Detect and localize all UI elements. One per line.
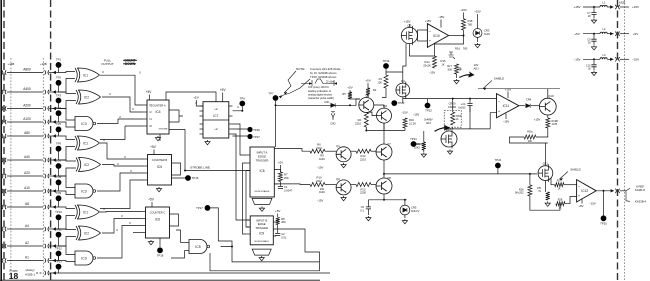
svg-text:IC1: IC1 [83,141,88,145]
svg-text:Q11: Q11 [543,162,549,166]
wire IC8 out2 to R10 [274,183,310,186]
svg-text:TP25: TP25 [600,222,607,226]
svg-text:L3: L3 [603,53,606,57]
zener CR5 [400,205,410,215]
transistor Q10 [539,94,556,115]
wire base Q6 [366,112,376,116]
pin stub IC9 [246,226,250,228]
svg-text:analog digital section: analog digital section [308,93,333,97]
wire gate input [59,122,76,127]
resistor R22 in box [451,112,455,125]
pin stub IC7 right [229,105,233,107]
svg-text:IC1: IC1 [83,73,88,77]
pin stub [144,165,148,167]
wire gate input [59,72,76,73]
svg-text:TP22: TP22 [425,109,432,113]
diode CR4 [526,104,530,108]
svg-text:TP3: TP3 [56,93,62,97]
wire [351,184,356,186]
strobe line wire [169,130,250,171]
wire [243,163,247,234]
svg-text:TP21: TP21 [410,137,417,141]
wire gate input [59,237,77,247]
x [547,180,549,192]
wire C5 stub [367,200,369,202]
svg-text:+C4: +C4 [461,102,466,106]
svg-text:IC1: IC1 [83,210,88,214]
ground [148,240,153,245]
resistor R19 [546,118,550,128]
pin stub [143,104,147,106]
bus line A4 [7,228,43,230]
svg-text:9x4K: 9x4K [319,157,325,161]
wire [351,150,356,152]
wire IC2 out to IC4 [102,97,143,112]
svg-text:−15V: −15V [632,58,639,62]
wire [100,211,142,214]
wire [603,191,605,216]
pin stub [143,118,147,120]
wire A400 to TP column [49,91,59,93]
wire [210,253,320,271]
pin stub IC8 [246,162,250,164]
resistor R26 [528,185,532,196]
wire CR2 [332,117,334,120]
wire to IC12 minus [564,184,577,186]
svg-text:C9x3R: C9x3R [448,105,456,109]
svg-text:A200: A200 [23,104,31,108]
delay element under IC9 [252,249,271,255]
wire [463,30,465,36]
svg-text:IC2: IC2 [84,231,89,235]
wire [593,15,595,19]
FET Q15 glyph [449,52,456,59]
test point TP11 [56,232,62,238]
svg-text:R28: R28 [558,199,563,202]
pin stub [142,218,146,220]
svg-text:C2: C2 [281,232,285,236]
wire [172,177,189,179]
ground [341,163,346,168]
test point TP27 [247,134,252,139]
bus line A8 [7,206,43,208]
pin stub IC8 [246,170,250,172]
resistor R28 1K [556,202,565,206]
wire [620,58,629,60]
svg-text:A1: A1 [25,256,29,260]
wire IC3 out to IC4 [97,119,143,124]
board edge dotted line left a [10,58,12,278]
svg-text:OUTPUT: OUTPUT [101,62,114,66]
FET Q9 [441,127,457,149]
wire A1 to TP column [49,260,59,262]
svg-text:TP19: TP19 [383,59,390,63]
transistor Q8 [376,178,392,194]
svg-text:TP5: TP5 [56,122,62,126]
svg-text:TP4: TP4 [56,106,62,110]
wire [279,79,310,97]
svg-text:−15V: −15V [503,120,510,124]
svg-text:0.01: 0.01 [281,235,287,239]
pin stub IC7 [200,123,204,125]
wire [159,134,161,141]
svg-text:A80: A80 [24,131,30,135]
wire [452,99,454,108]
wire [384,160,420,174]
wire [620,33,629,35]
wire from IC6 strobe [176,230,181,243]
svg-text:0x022: 0x022 [458,105,466,109]
test point TP9 [56,195,62,201]
svg-text:TP24: TP24 [495,158,502,162]
test point TP17 [205,205,211,211]
svg-text:MONOSTABLE: MONOSTABLE [255,240,270,243]
wire [420,173,537,175]
svg-text:+5V: +5V [347,86,352,90]
FET Q4 [396,79,410,98]
svg-text:COUNTER B: COUNTER B [152,158,168,162]
wire [233,107,243,111]
svg-text:IC10: IC10 [433,34,440,38]
svg-text:TRIGGER: TRIGGER [256,159,269,163]
wire [607,33,613,35]
svg-text:COUNTER A: COUNTER A [150,104,165,108]
pin stub [142,232,146,234]
svg-text:20 uSec: 20 uSec [326,82,335,84]
op-amp IC12 [577,180,597,202]
wire A40 to TP column [49,159,59,161]
pin stub IC7 right [229,133,233,135]
svg-text:TP18: TP18 [157,254,164,258]
svg-text:TP10, 9x9048 shown: TP10, 9x9048 shown [310,75,337,79]
wire [153,150,155,155]
wire TP stub [58,101,60,109]
svg-text:10K: 10K [377,81,382,85]
svg-text:+15V: +15V [460,8,467,12]
wire box bottom [452,127,454,129]
wire TP stub [58,182,60,191]
wire A80 to TP column [49,135,59,137]
test point TP18 [157,247,163,253]
wire TP stub [58,65,60,73]
capacitor C5 [366,207,371,209]
svg-text:−15V: −15V [317,166,324,170]
wire [583,6,600,8]
wire [100,75,143,105]
bus line DAISY from sheet 18 [36,272,43,274]
wire A800 to TP column [49,72,59,74]
counter IC5 [148,155,172,186]
svg-text:R17: R17 [447,64,452,68]
wire carry2 [100,180,144,209]
wire A200 to TP column [49,108,59,110]
capacitor C1 0.0047 [278,187,283,189]
wire [273,229,319,262]
wire [368,199,406,201]
svg-text:+5V: +5V [220,88,227,92]
pin stub [142,225,146,227]
inductor L3 [600,58,607,60]
pin stub IC7 right [229,115,233,117]
wire [279,182,281,187]
wire [449,35,464,37]
svg-text:+5V: +5V [365,79,370,83]
test point TP5 [56,126,62,132]
capacitor C4 [467,104,472,106]
resistor R7 20K [278,172,282,182]
wire [593,41,595,45]
svg-text:−15V: −15V [413,113,420,117]
resistor R22 20K [524,135,536,139]
pin stub [144,172,148,174]
wire [367,95,369,98]
wire [222,93,224,102]
ground [156,187,161,192]
svg-text:NOTE:: NOTE: [296,67,305,71]
wire [426,98,497,100]
svg-text:R7: R7 [284,173,288,177]
svg-text:9x8.1V: 9x8.1V [411,209,420,213]
svg-text:CR2: CR2 [330,122,336,126]
monostable IC8 [250,147,274,197]
svg-text:+5V: +5V [574,32,579,36]
wire [166,92,216,102]
svg-text:+5V: +5V [275,209,280,213]
svg-text:A20: A20 [24,171,30,175]
pin stub IC9 [246,233,250,235]
svg-text:−15V: −15V [438,15,445,19]
svg-text:TP7: TP7 [56,159,62,163]
bus line A800 [7,72,43,74]
wire gate input [59,160,77,161]
wire [547,115,549,118]
resistor R2 [366,88,370,95]
svg-text:L2: L2 [603,27,606,31]
wire [402,97,404,103]
wire [408,24,410,27]
svg-text:Q8: Q8 [387,176,391,180]
svg-text:KA33B-4: KA33B-4 [635,199,647,203]
bus line A100 [7,121,43,123]
test point TP26 [247,127,252,132]
svg-text:+15V: +15V [403,20,410,24]
svg-text:C1: C1 [284,185,288,189]
resistor R5 [348,92,352,99]
wire [403,98,426,100]
svg-text:SHIELD: SHIELD [570,168,580,172]
wire [185,250,190,252]
wire gate input [59,168,77,176]
wire [383,123,385,144]
test point TP23 [391,100,397,106]
wire to Q3 base region [382,88,386,98]
note pulse waveform [301,79,334,86]
svg-text:Q9: Q9 [447,127,451,131]
test point TP7 [56,163,62,169]
wire [325,184,336,186]
wire noninverting in [418,40,428,42]
wire [417,30,419,41]
wire [277,214,279,218]
wire TP stub [58,83,60,92]
ground [475,43,480,48]
x [405,116,410,119]
wire [593,67,595,71]
ground [366,216,371,221]
flip-flop IC7 [203,102,229,138]
wire [505,114,507,120]
svg-text:A40: A40 [24,155,30,159]
svg-text:L1: L1 [603,1,606,5]
svg-text:1K: 1K [441,62,444,66]
wire box top [452,108,454,112]
inductor L1 [600,5,607,7]
svg-text:A800: A800 [23,68,31,72]
bus line A80 [7,135,43,137]
resistor R16 [403,118,407,128]
svg-text:A4: A4 [25,224,29,228]
XOR gate IC2 [79,158,101,172]
transistor Q3 [359,94,374,113]
svg-text:R16: R16 [455,47,460,51]
svg-text:A100: A100 [23,117,31,121]
wire [447,128,490,130]
svg-text:IC9: IC9 [259,232,264,236]
wire TP stub [58,198,60,207]
svg-text:Q1: Q1 [336,144,340,148]
wire IC4 output loop [169,110,183,122]
pin stub [144,179,148,181]
monostable IC9 [250,216,273,245]
wire [349,90,351,96]
wire A20 to TP column [49,175,59,177]
wire [507,92,509,99]
ground [205,140,210,145]
diode CR2 [331,112,335,119]
XOR gate IC2 [79,90,101,104]
test point TP22 [425,103,431,109]
svg-text:C5: C5 [361,205,365,209]
ground [259,256,264,261]
wire [551,178,555,185]
wire [371,184,376,186]
board edge dotted line left b [42,58,44,278]
NAND gate IC3 [75,251,93,265]
bus line A10 [7,190,43,192]
wire [463,13,465,19]
svg-text:780: 780 [463,47,468,51]
svg-text:IC3: IC3 [81,189,86,193]
wire [529,174,531,185]
svg-text:R5: R5 [342,92,346,96]
wire R8 tap [273,221,277,223]
wire [490,113,496,129]
border frame left [0,0,2,281]
bus line A40 [7,159,43,161]
wire C1 tap [274,183,278,185]
svg-text:TRIGGER: TRIGGER [255,226,268,230]
wire [366,123,384,130]
capacitor C7 [593,6,595,8]
wire gate input [59,109,76,121]
x [386,200,388,207]
resistor R3 10K [384,75,388,88]
svg-text:1K: 1K [558,207,561,210]
op-amp IC10 [427,24,448,48]
resistor R13 2200 [356,183,371,187]
svg-text:+5V: +5V [193,96,198,100]
svg-text:CR5: CR5 [411,206,417,210]
wire [560,172,569,180]
wire A10 to TP column [49,190,59,192]
wire [233,135,251,137]
test point TP7 [273,95,279,101]
wire [284,71,296,93]
svg-text:IC7: IC7 [213,114,218,118]
svg-text:TP1: TP1 [56,58,62,62]
ground [591,19,596,24]
svg-text:9x4K: 9x4K [319,190,325,194]
diode CR1 [331,103,335,107]
capacitor [591,65,596,67]
bus line A2 [7,245,43,247]
svg-text:+13B: +13B [8,62,15,66]
svg-text:TP11: TP11 [55,227,62,231]
svg-text:R14: R14 [425,60,430,64]
wire [547,89,549,99]
LED CR3 [473,29,482,38]
svg-text:IC5: IC5 [157,165,162,169]
pin stub IC7 [200,133,204,135]
wire [350,98,360,100]
svg-text:−15V: −15V [573,58,580,62]
ground [341,196,346,201]
svg-text:500: 500 [448,67,453,71]
wire [593,7,595,12]
test point TP1 [56,62,62,68]
wire [275,101,277,147]
svg-text:TP17: TP17 [196,206,203,210]
x [418,35,428,37]
FET Q11 [538,162,553,182]
connector column P1 (left) [3,0,5,281]
test point TP2 [56,80,62,86]
wire TP stub [58,113,60,122]
wire A100 to TP column [49,121,59,123]
wire I8 in [133,232,142,234]
wire [583,58,600,60]
wire inverting in [418,29,428,31]
svg-text:−15V: −15V [401,111,408,115]
wire [365,127,367,131]
svg-text:+5V: +5V [278,161,283,165]
wire [544,181,546,193]
svg-text:−15V: −15V [317,199,324,203]
svg-text:Q7: Q7 [387,142,391,146]
svg-text:R18: R18 [468,19,473,23]
wire IC3 out to IC5 [97,173,144,191]
svg-text:COUNTER C: COUNTER C [150,211,166,215]
wire [367,83,369,88]
svg-text:TP16: TP16 [192,176,199,180]
wire IC5 output loop [172,163,181,175]
wire [593,59,595,64]
wire TP stub [58,149,60,160]
svg-text:780: 780 [468,22,473,26]
svg-text:10V: 10V [474,63,479,67]
test point TP6 [56,146,62,152]
NAND gate IC3 [75,184,93,198]
